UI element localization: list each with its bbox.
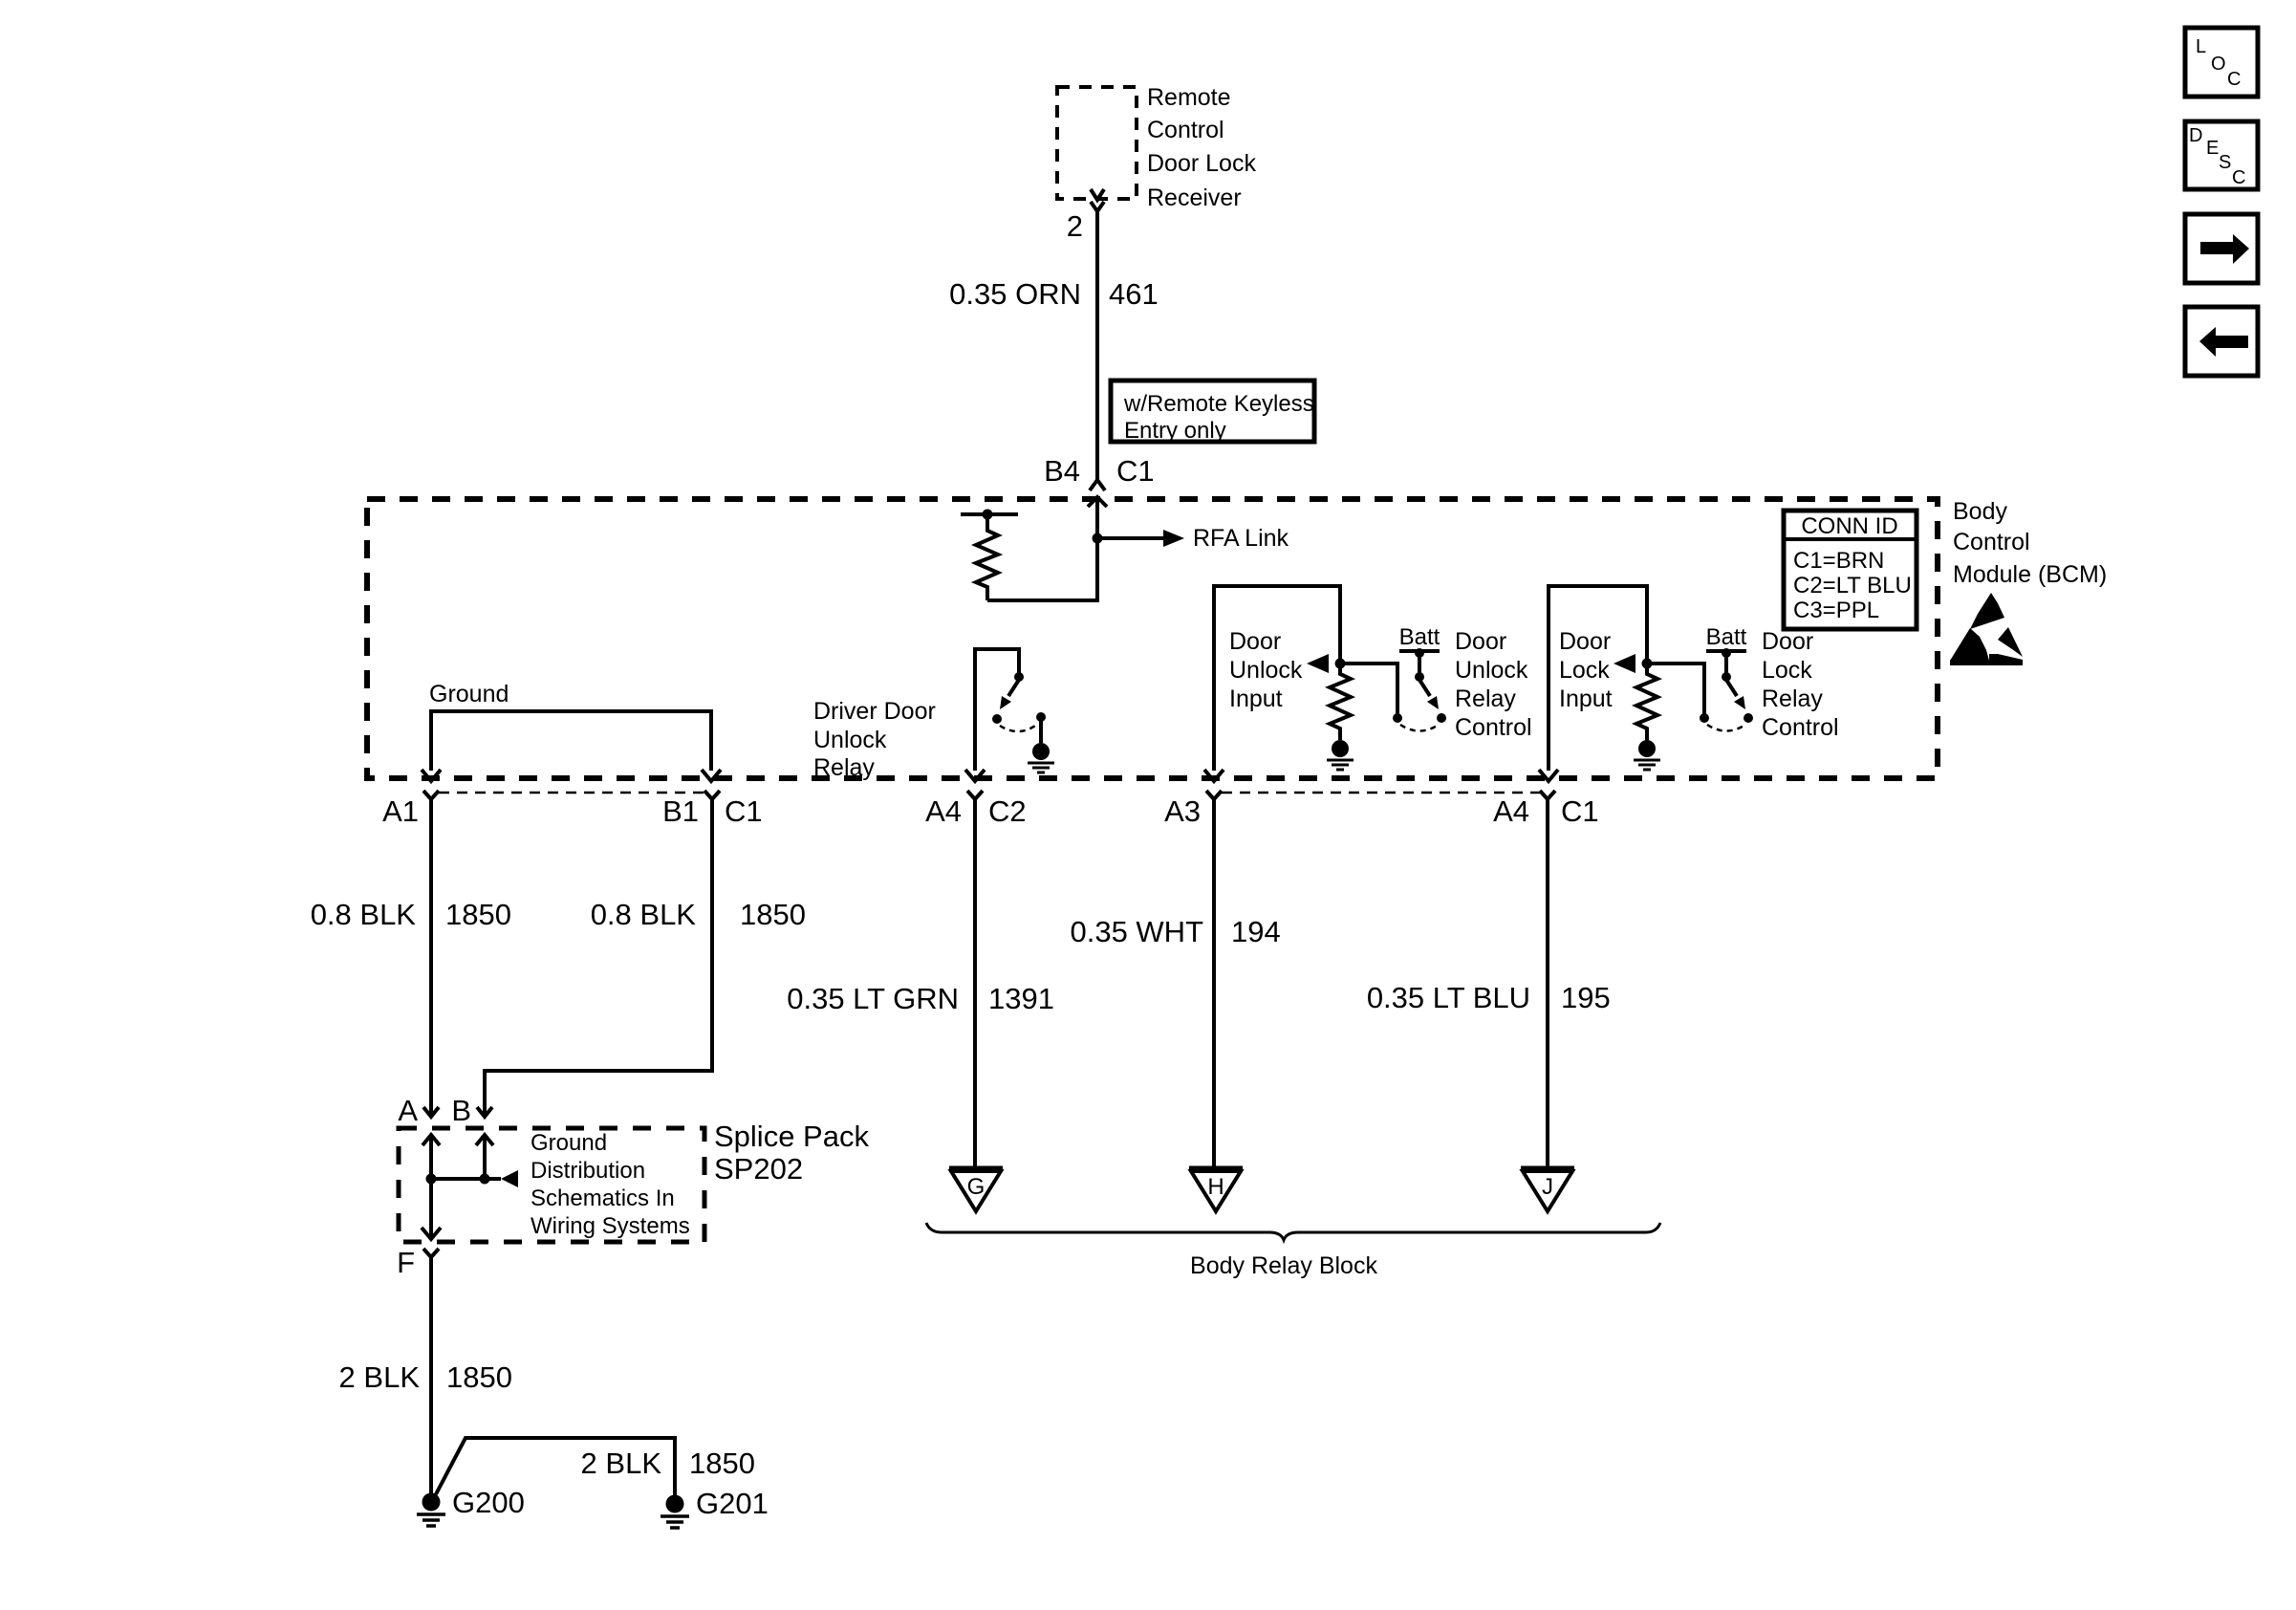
splice bus wire [431,1177,501,1181]
svg-text:2: 2 [1067,209,1083,243]
label: Door Unlock Input [1229,628,1303,712]
svg-text:Control: Control [1147,117,1224,143]
svg-text:G: G [967,1174,986,1200]
svg-text:E: E [2206,138,2219,159]
arrow at A4/C1 exit [1539,770,1558,781]
svg-text:0.35 LT BLU: 0.35 LT BLU [1367,981,1530,1014]
resistor (unlock input pull-down) [1330,664,1351,740]
component box: Remote Control Door Lock Receiver (dashed) [1057,87,1137,199]
svg-text:Control: Control [1762,714,1839,741]
svg-text:Relay: Relay [1455,685,1516,712]
svg-text:C: C [2227,69,2241,90]
wire label 0.35 ORN 461 [949,277,1159,311]
svg-text:1850: 1850 [689,1447,755,1480]
svg-text:B1: B1 [662,794,699,828]
splice internal wire B [483,1135,487,1179]
brace: Body Relay Block [926,1223,1660,1240]
svg-text:0.35 ORN: 0.35 ORN [949,277,1081,311]
svg-text:O: O [2211,54,2226,75]
svg-text:L: L [2196,36,2206,57]
svg-text:C: C [2232,167,2245,188]
unlock input wiring rail [1214,586,1340,771]
relay fixed contact node [1036,712,1046,722]
svg-text:Driver Door: Driver Door [813,698,936,725]
svg-text:Lock: Lock [1762,657,1812,684]
svg-text:RFA Link: RFA Link [1193,525,1289,552]
svg-text:Entry only: Entry only [1124,418,1226,444]
svg-text:SP202: SP202 [714,1152,803,1186]
wire A4/C2 to body relay block 0.35 LT GRN 1391 [973,799,977,1167]
relay contact dashed arc [1000,724,1038,731]
unlock input arrowhead (points to label) [1307,654,1329,673]
lock relay pivot node [1722,672,1731,682]
label: Ground Distribution Schematics In Wiring Systems [531,1130,690,1239]
wire junction to unlock relay contact [1340,664,1397,714]
connector B4/C1 female fork [1090,480,1105,490]
arrow at A3 exit [1204,770,1224,781]
label: Door Lock Input [1559,628,1613,712]
svg-text:Door: Door [1559,628,1611,655]
label: Door Lock Relay Control [1762,628,1839,741]
ground symbol (unlock input) [1327,740,1354,770]
splice internal wire A [429,1135,433,1237]
svg-text:A4: A4 [925,794,962,828]
svg-text:G201: G201 [696,1487,769,1520]
RFA Link arrow wire [1097,536,1164,540]
lock input wiring rail [1549,586,1647,771]
svg-text:J: J [1542,1174,1553,1200]
Splice Pack SP202 dashed box [399,1128,704,1242]
svg-text:A4: A4 [1493,794,1529,828]
svg-text:Relay: Relay [1762,685,1823,712]
svg-text:C1=BRN: C1=BRN [1793,548,1884,574]
toolbar button forward arrow [2185,214,2258,283]
note box: w/Remote Keyless Entry only [1111,381,1314,442]
svg-text:Distribution: Distribution [531,1158,645,1184]
svg-text:194: 194 [1231,915,1281,948]
terminal triangle H [1189,1168,1243,1211]
svg-text:1850: 1850 [446,1360,512,1394]
arrow at A1 exit [422,770,441,781]
wire from B4 down inside BCM [987,500,1097,600]
unlock relay left contact node [1393,713,1402,723]
ESD sensitivity symbol [1950,593,2023,665]
wire A4/C1 to body relay block 0.35 LT BLU 195 [1546,799,1549,1167]
svg-text:Ground: Ground [531,1130,607,1156]
svg-text:C1: C1 [1116,454,1155,488]
svg-text:H: H [1207,1174,1224,1200]
svg-text:Control: Control [1953,529,2030,555]
svg-text:Unlock: Unlock [1455,657,1528,684]
Batt wire to pivot [1724,653,1728,673]
splice pack connector forks A and B [423,1107,439,1117]
driver door unlock relay wiring [975,649,1019,771]
lock input arrowhead (points to label) [1614,654,1635,673]
connector fork A4/C1 [1540,791,1555,799]
svg-text:Body Relay Block: Body Relay Block [1190,1252,1377,1279]
arrow at B1 exit [702,770,721,781]
lock relay right contact node [1744,713,1753,723]
svg-text:Module (BCM): Module (BCM) [1953,561,2107,588]
svg-text:Door: Door [1455,628,1506,655]
wire 461 from receiver to BCM [1095,211,1099,480]
svg-text:Door: Door [1229,628,1281,655]
splice bus arrowhead [501,1170,518,1187]
label: Splice Pack SP202 [714,1120,869,1186]
svg-text:C1: C1 [1561,794,1599,828]
wire labels 0.8 BLK 1850 [311,898,806,931]
svg-text:Door Lock: Door Lock [1147,150,1256,177]
svg-text:Receiver: Receiver [1147,185,1242,211]
ground output wire (rail to A1 and B1) [431,711,711,771]
connector fork F [423,1249,439,1257]
relay moving contact node [992,714,1002,724]
svg-text:A1: A1 [382,794,419,828]
splice pack entry chevrons [422,1135,440,1145]
label: Door Unlock Relay Control [1455,628,1532,741]
terminal triangle G [949,1168,1003,1211]
svg-text:Remote: Remote [1147,84,1231,111]
unlock relay right contact node [1437,713,1446,723]
svg-text:G200: G200 [452,1486,525,1519]
svg-text:0.8 BLK: 0.8 BLK [311,898,417,931]
connector fork A4/C2 [967,791,983,799]
ground symbol (driver door unlock relay) [1028,743,1054,772]
svg-text:Unlock: Unlock [813,727,887,753]
svg-text:1391: 1391 [988,982,1054,1015]
junction node on rail [983,510,993,520]
svg-text:Body: Body [1953,498,2007,525]
wire G200 to G201 2 BLK 1850 [436,1438,675,1495]
label: Remote Control Door Lock Receiver [1147,84,1256,211]
svg-text:2 BLK: 2 BLK [581,1447,662,1480]
internal pull-up rail [961,512,1018,516]
toolbar button DESC [2185,121,2258,189]
svg-text:CONN ID: CONN ID [1801,513,1897,539]
lock input junction node [1642,659,1653,669]
svg-text:1850: 1850 [740,898,806,931]
svg-text:C2=LT BLU: C2=LT BLU [1793,573,1912,598]
svg-text:B: B [451,1094,471,1127]
RFA Link arrowhead [1163,530,1184,547]
svg-text:C1: C1 [725,794,763,828]
pin labels along BCM bottom [382,794,1599,828]
toolbar button back arrow [2185,307,2258,376]
CONN ID table box [1784,511,1917,629]
Body Control Module (BCM) dashed box [367,499,1938,778]
lock relay arm [1726,680,1737,696]
arrow at A4/C2 exit [965,770,985,781]
wire F to G200 2 BLK 1850 [429,1257,433,1494]
Batt feed bar (unlock relay) [1399,649,1440,653]
svg-text:Ground: Ground [429,681,509,707]
unlock input junction node [1335,659,1346,669]
connector fork B1/C1 [704,791,720,799]
terminal triangle J [1521,1168,1574,1211]
wire from fixed contact to ground [1039,717,1043,743]
svg-text:2 BLK: 2 BLK [339,1360,421,1394]
Batt feed bar (lock relay) [1706,649,1746,653]
connector B4/C1 male chevron (arrow up into BCM border) [1088,497,1107,507]
wire B1 ground 0.8 BLK 1850 [485,799,712,1117]
svg-text:Relay: Relay [813,754,875,781]
ground G200 [417,1493,445,1527]
relay arm arrowhead [1000,696,1011,709]
lock relay contact dashed arc [1707,725,1745,731]
resistor R (BCM internal, RFA) [976,514,998,600]
svg-text:Schematics In: Schematics In [531,1186,675,1211]
svg-text:A: A [398,1094,418,1127]
unlock relay pivot node [1415,672,1424,682]
connector pin 2 female fork [1091,202,1104,211]
ground G201 [661,1495,689,1529]
Batt node [1415,648,1424,658]
svg-text:Unlock: Unlock [1229,657,1303,684]
wire A3 to body relay block 0.35 WHT 194 [1212,799,1216,1167]
unlock relay contact dashed arc [1400,725,1439,731]
svg-text:Splice Pack: Splice Pack [714,1120,869,1153]
svg-text:C2: C2 [988,794,1027,828]
svg-text:Input: Input [1559,685,1613,712]
svg-text:0.35 WHT: 0.35 WHT [1070,915,1203,948]
svg-text:D: D [2189,125,2202,146]
splice junction node A [426,1174,437,1185]
ground symbol (lock input) [1634,740,1660,770]
resistor (lock input pull-down) [1636,664,1657,740]
unlock relay arm arrowhead [1427,696,1439,709]
Batt node [1722,648,1731,658]
svg-text:461: 461 [1109,277,1159,311]
lock relay left contact node [1700,713,1709,723]
splice junction node B [480,1174,490,1185]
svg-text:Batt: Batt [1399,624,1440,650]
connector fork A3 [1206,791,1222,799]
svg-text:Wiring Systems: Wiring Systems [531,1213,690,1239]
svg-text:0.8 BLK: 0.8 BLK [591,898,697,931]
connector pin 2 male chevron at receiver [1091,189,1104,200]
svg-text:F: F [397,1246,415,1279]
connector fork A1 [423,791,439,799]
connector row below BCM: thin dashed connector lines [439,792,704,794]
svg-text:Lock: Lock [1559,657,1610,684]
svg-text:B4: B4 [1044,454,1080,488]
svg-text:1850: 1850 [445,898,511,931]
label: Body Control Module (BCM) [1953,498,2107,588]
splice exit chevron F [422,1228,441,1239]
svg-text:A3: A3 [1164,794,1201,828]
svg-text:0.35 LT GRN: 0.35 LT GRN [787,982,959,1015]
relay pivot node [1014,672,1024,682]
Batt wire to pivot [1418,653,1421,673]
svg-text:Input: Input [1229,685,1283,712]
Driver Door Unlock Relay label [813,698,936,781]
wire A1 ground 0.8 BLK 1850 [429,799,433,1117]
unlock relay arm [1419,680,1430,696]
svg-text:C3=PPL: C3=PPL [1793,598,1879,623]
svg-text:195: 195 [1561,981,1611,1014]
svg-text:Door: Door [1762,628,1813,655]
wire junction to lock relay contact [1647,664,1704,714]
svg-text:w/Remote Keyless: w/Remote Keyless [1123,391,1314,417]
svg-text:Batt: Batt [1706,624,1747,650]
relay arm [1008,680,1019,696]
lock relay arm arrowhead [1734,696,1745,709]
junction node on B4 wire [1093,533,1103,544]
svg-text:S: S [2219,152,2231,173]
svg-text:Control: Control [1455,714,1532,741]
toolbar button LOC [2185,28,2258,97]
